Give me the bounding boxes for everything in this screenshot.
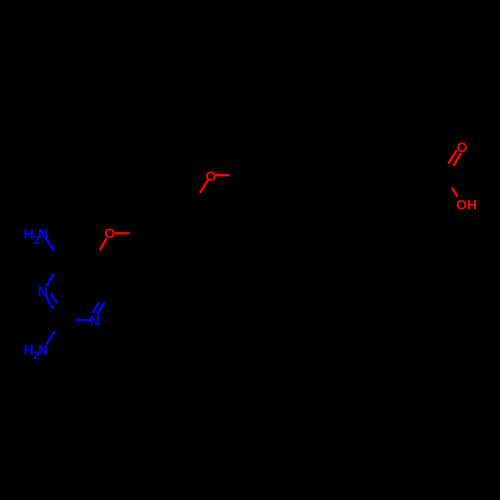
svg-text:N: N bbox=[38, 341, 48, 357]
svg-text:H: H bbox=[23, 341, 33, 357]
carbonyl C=O line 2 bbox=[454, 154, 461, 166]
bond C2-N1 half bbox=[76, 319, 90, 321]
svg-text:OH: OH bbox=[456, 196, 477, 212]
carbonyl C=O line 1 bbox=[449, 151, 456, 163]
bond NH2(top)-C4 half bbox=[46, 239, 53, 250]
bond O(ether1)-C5 half bbox=[100, 239, 106, 249]
double bond N3=C2 inner line bbox=[51, 294, 56, 302]
svg-text:O: O bbox=[456, 139, 467, 155]
double bond N1=C6 inner line bbox=[93, 303, 99, 313]
svg-text:O: O bbox=[104, 225, 115, 241]
bond O(ether1)-CH2 half bbox=[116, 232, 129, 234]
bond C-OH half bbox=[452, 189, 457, 196]
bond C2-NH2(bottom) half bbox=[47, 332, 54, 343]
bond O(ether2)-CH2 half bbox=[217, 174, 229, 176]
bond N3-C4 half bbox=[47, 274, 53, 285]
svg-text:H: H bbox=[24, 225, 34, 241]
svg-text:N: N bbox=[90, 313, 100, 329]
double bond N1=C6 main line bbox=[97, 304, 104, 315]
bond O(ether2)-aryl half bbox=[201, 181, 208, 192]
svg-text:O: O bbox=[205, 168, 216, 184]
double bond N3=C2 main line bbox=[46, 297, 52, 308]
svg-text:N: N bbox=[38, 225, 48, 241]
svg-text:N: N bbox=[38, 283, 48, 299]
